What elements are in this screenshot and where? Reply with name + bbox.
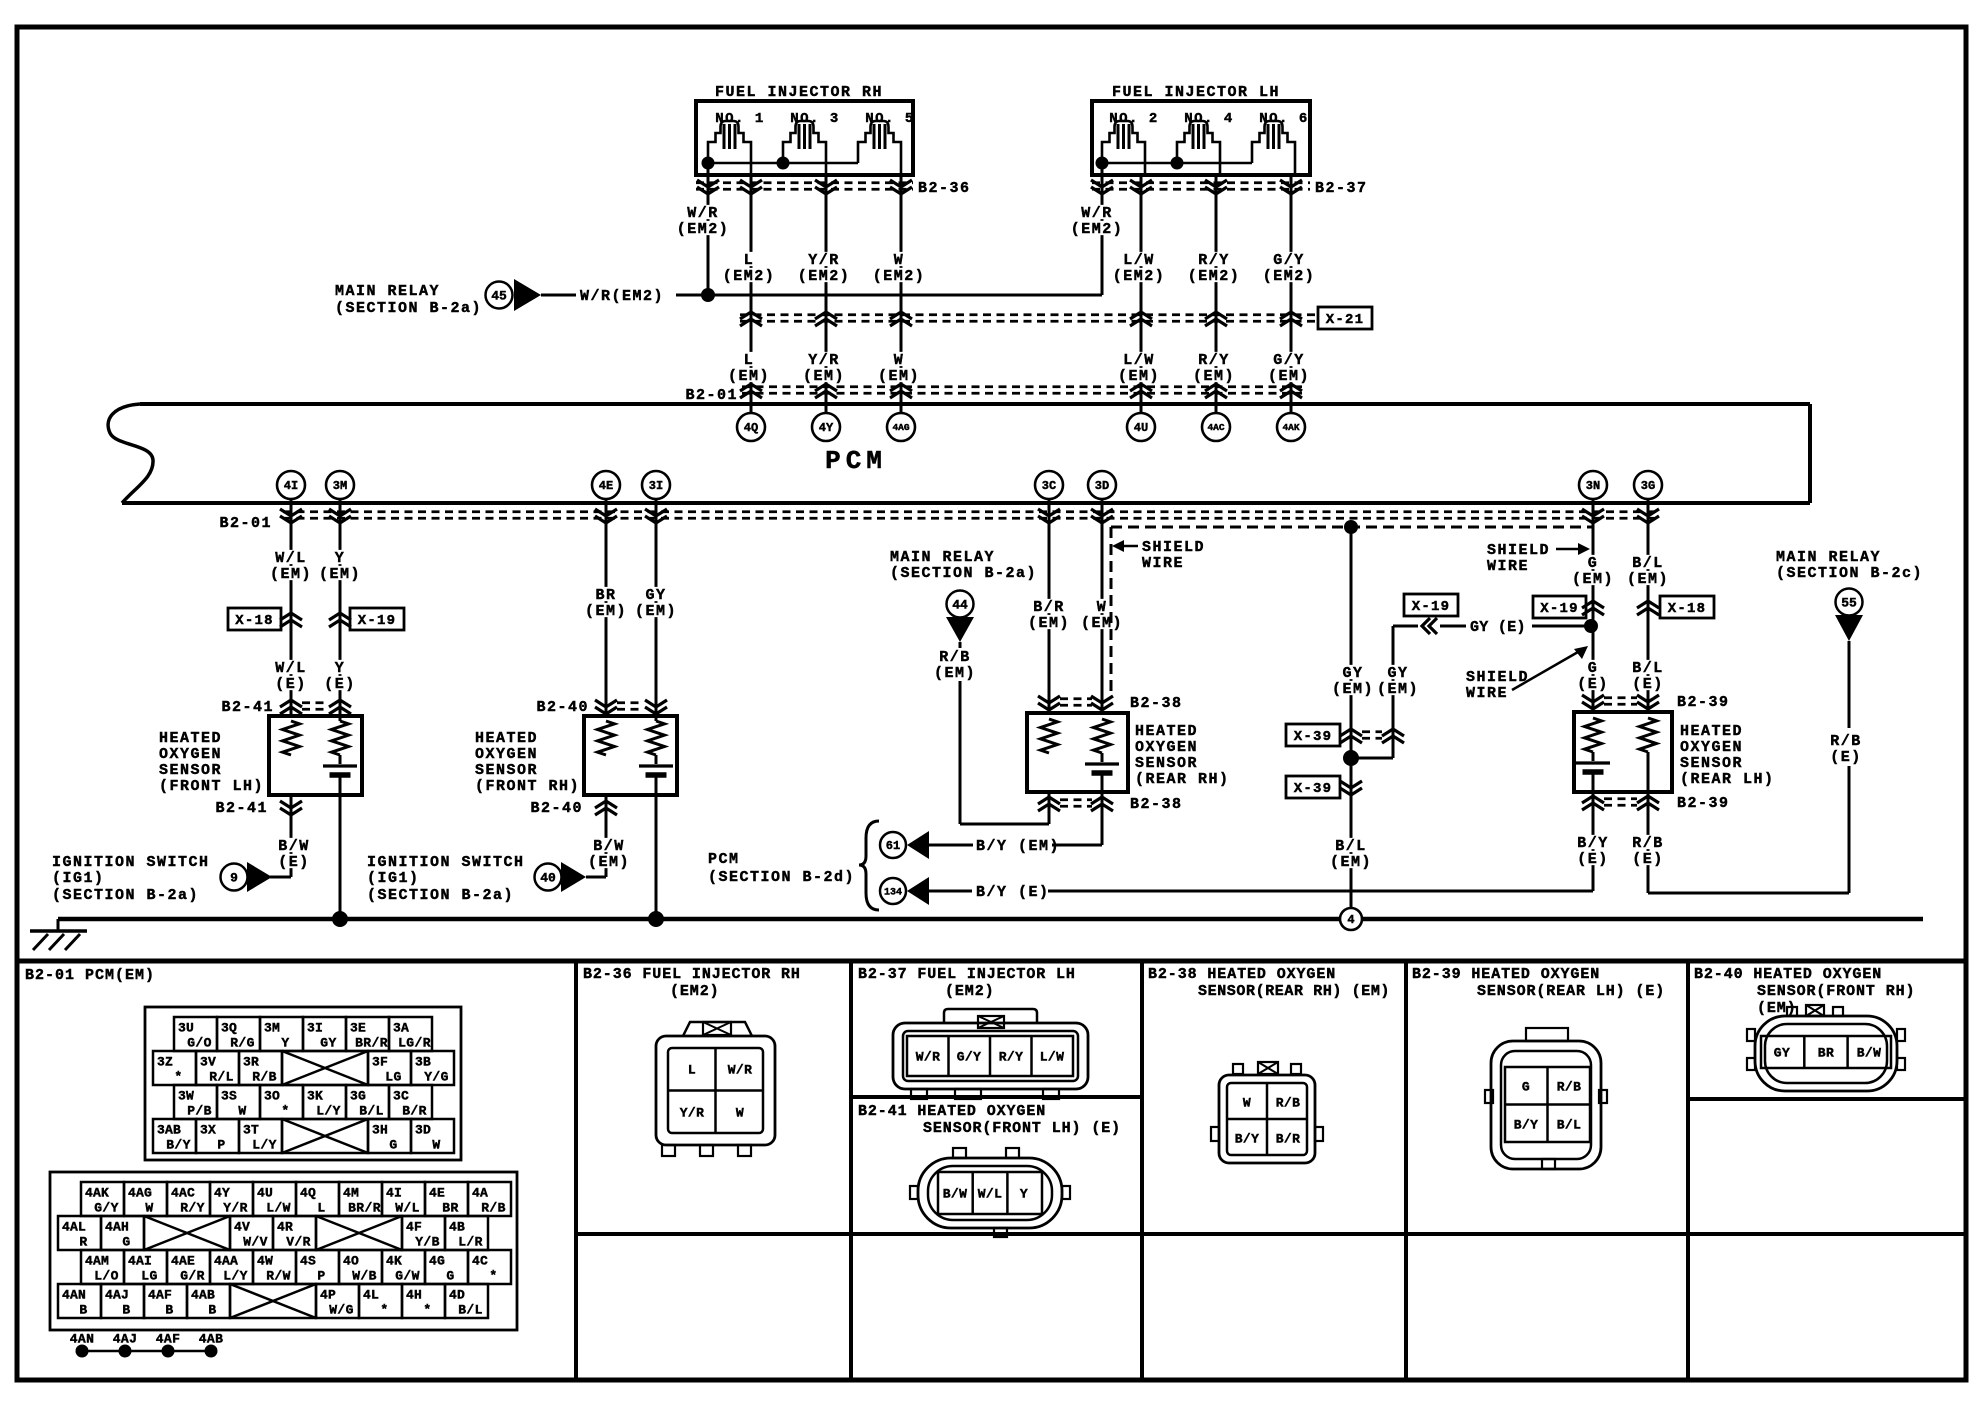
shield wire callout upper right — [1487, 542, 1590, 575]
cell header B2-01 PCM(EM) — [25, 967, 155, 984]
table top border — [17, 959, 1966, 964]
connector B2-01 bottom — [219, 509, 1659, 532]
svg-text:B2-37 FUEL INJECTOR LH: B2-37 FUEL INJECTOR LH — [858, 966, 1076, 983]
svg-text:WIRE: WIRE — [1142, 555, 1184, 572]
svg-text:B/Y (EM): B/Y (EM) — [976, 838, 1060, 855]
PCM pin 3G — [1634, 471, 1662, 499]
svg-text:L: L — [744, 352, 755, 369]
svg-text:3M: 3M — [264, 1020, 280, 1035]
svg-text:B/R: B/R — [402, 1103, 427, 1118]
wire Y (E) to ground — [332, 775, 348, 927]
svg-text:(EM): (EM) — [1193, 368, 1235, 385]
svg-text:B2-39: B2-39 — [1677, 795, 1730, 812]
svg-text:(EM2): (EM2) — [670, 983, 720, 1000]
svg-text:(EM): (EM) — [1330, 854, 1372, 871]
wire L (EM2) — [722, 175, 777, 413]
heater resistor front RH — [648, 721, 665, 755]
svg-text:L/W: L/W — [1123, 352, 1155, 369]
wire B/R below sensor — [1048, 792, 1051, 824]
svg-text:X-39: X-39 — [1294, 781, 1332, 797]
svg-text:4: 4 — [1347, 913, 1354, 927]
PCM pin 3C — [1035, 471, 1063, 499]
svg-text:PCM: PCM — [825, 446, 887, 476]
svg-text:R/W: R/W — [266, 1268, 291, 1283]
svg-text:4AK: 4AK — [85, 1185, 109, 1200]
connector B2-38 bottom — [1038, 796, 1183, 813]
svg-text:R/B: R/B — [939, 649, 971, 666]
svg-text:4D: 4D — [449, 1287, 465, 1302]
connector pin grid B2-01 4x block — [50, 1172, 517, 1330]
svg-text:X-39: X-39 — [1294, 729, 1332, 745]
wire W/R(EM2) main relay feed — [541, 288, 1102, 305]
RH injector internal supply bus wire — [702, 157, 859, 170]
wire BR (EM) from pin 4E — [584, 499, 628, 716]
svg-text:BR: BR — [1818, 1045, 1834, 1060]
svg-text:4AC: 4AC — [1207, 422, 1224, 433]
svg-text:B2-40: B2-40 — [530, 800, 583, 817]
svg-text:G: G — [122, 1234, 130, 1249]
connector B2-39 bottom — [1582, 795, 1730, 812]
svg-text:(EM): (EM) — [588, 854, 630, 871]
svg-text:3Q: 3Q — [221, 1020, 237, 1035]
svg-text:SENSOR(REAR RH) (EM): SENSOR(REAR RH) (EM) — [1198, 983, 1390, 1000]
svg-text:Y: Y — [335, 550, 346, 567]
wire B/Y (E) to PCM 134 — [929, 884, 1593, 901]
PCM pin 4AC — [1202, 413, 1230, 441]
svg-text:SHIELD: SHIELD — [1142, 539, 1205, 556]
heater battery symbol front LH — [323, 755, 357, 775]
svg-text:P: P — [317, 1268, 325, 1283]
svg-text:(EM): (EM) — [270, 566, 312, 583]
svg-text:4B: 4B — [449, 1219, 465, 1234]
svg-text:GY (E): GY (E) — [1470, 619, 1526, 636]
svg-text:4G: 4G — [429, 1253, 445, 1268]
svg-text:L/W: L/W — [266, 1200, 291, 1215]
svg-text:(SECTION B-2a): (SECTION B-2a) — [335, 300, 482, 317]
connector drawing B2-40 — [1747, 1005, 1905, 1091]
svg-text:G: G — [1588, 660, 1599, 677]
svg-text:BR: BR — [442, 1200, 458, 1215]
svg-text:(E): (E) — [1632, 851, 1664, 868]
PCM pin 4Q — [737, 413, 765, 441]
svg-text:4AJ: 4AJ — [113, 1331, 138, 1346]
connector X-19 right — [1533, 596, 1604, 618]
wire W (EM2) — [872, 175, 927, 413]
injector coil NO.1 — [708, 121, 751, 175]
svg-text:9: 9 — [230, 870, 238, 885]
wire L/W (EM2) — [1112, 175, 1167, 413]
svg-text:4AK: 4AK — [1282, 422, 1299, 433]
svg-text:4M: 4M — [343, 1185, 359, 1200]
heated oxygen sensor (front RH) box — [475, 716, 677, 795]
svg-text:W: W — [1097, 599, 1108, 616]
svg-text:R/B: R/B — [252, 1069, 277, 1084]
svg-text:MAIN RELAY: MAIN RELAY — [890, 549, 995, 566]
svg-text:Y/R: Y/R — [680, 1105, 705, 1120]
svg-text:3M: 3M — [333, 479, 347, 493]
svg-text:X-19: X-19 — [1412, 599, 1450, 615]
svg-text:(EM): (EM) — [1572, 571, 1614, 588]
sensor element resistor rear RH — [1041, 719, 1058, 753]
svg-text:(EM): (EM) — [1028, 615, 1070, 632]
heater resistor front LH — [332, 721, 349, 755]
svg-text:(EM): (EM) — [1627, 571, 1669, 588]
svg-text:(E): (E) — [278, 854, 310, 871]
svg-text:(E): (E) — [1577, 676, 1609, 693]
svg-text:4Y: 4Y — [214, 1185, 230, 1200]
svg-text:SHIELD: SHIELD — [1487, 542, 1550, 559]
svg-text:B2-41: B2-41 — [215, 800, 268, 817]
heater battery symbol front RH — [639, 755, 673, 775]
svg-text:3V: 3V — [200, 1054, 216, 1069]
wire R/Y (EM2) — [1187, 175, 1242, 413]
svg-text:B: B — [208, 1302, 216, 1317]
svg-text:(EM2): (EM2) — [798, 268, 851, 285]
svg-text:W/R: W/R — [1081, 205, 1113, 222]
ground pins 4AN 4AJ 4AF 4AB tie — [70, 1331, 224, 1357]
svg-text:B/L: B/L — [1335, 838, 1367, 855]
svg-text:3Z: 3Z — [157, 1054, 173, 1069]
svg-text:L: L — [317, 1200, 325, 1215]
svg-text:4AA: 4AA — [214, 1253, 238, 1268]
svg-text:R/L: R/L — [209, 1069, 234, 1084]
wire R/B (E) below sensor — [1631, 752, 1849, 893]
svg-text:BR/R: BR/R — [348, 1200, 381, 1215]
svg-text:(EM): (EM) — [1757, 1000, 1797, 1017]
svg-text:(SECTION B-2a): (SECTION B-2a) — [890, 565, 1037, 582]
wire B/R (EM) from pin 3C — [1027, 499, 1071, 713]
svg-text:(EM2): (EM2) — [723, 268, 776, 285]
svg-text:4Q: 4Q — [300, 1185, 316, 1200]
svg-text:3S: 3S — [221, 1088, 237, 1103]
svg-text:3W: 3W — [178, 1088, 194, 1103]
svg-text:HEATED: HEATED — [1135, 723, 1198, 740]
PCM pin 4U — [1127, 413, 1155, 441]
svg-text:SENSOR: SENSOR — [1135, 755, 1198, 772]
svg-text:4AM: 4AM — [85, 1253, 109, 1268]
svg-text:(EM): (EM) — [728, 368, 770, 385]
svg-text:4AF: 4AF — [156, 1331, 181, 1346]
svg-text:(EM): (EM) — [1081, 615, 1123, 632]
svg-text:(FRONT LH): (FRONT LH) — [159, 778, 264, 795]
svg-text:B/L: B/L — [1632, 660, 1664, 677]
svg-text:B2-41 HEATED OXYGEN: B2-41 HEATED OXYGEN — [858, 1103, 1046, 1120]
svg-text:W/L: W/L — [275, 660, 307, 677]
svg-text:B/L: B/L — [1557, 1117, 1582, 1132]
wire R/B (E) from main relay 55 — [1829, 641, 1863, 893]
svg-text:B/R: B/R — [1276, 1131, 1301, 1146]
svg-text:(SECTION B-2c): (SECTION B-2c) — [1776, 565, 1923, 582]
svg-text:(IG1): (IG1) — [367, 870, 420, 887]
svg-text:4AB: 4AB — [199, 1331, 224, 1346]
svg-text:HEATED: HEATED — [159, 730, 222, 747]
ground junction 4 — [1340, 908, 1362, 930]
svg-text:3F: 3F — [372, 1054, 388, 1069]
shield wire tie on G wire — [1592, 630, 1595, 654]
svg-text:4F: 4F — [406, 1219, 422, 1234]
heater resistor rear LH — [1640, 718, 1657, 752]
wire W (EM) label — [877, 352, 921, 385]
svg-text:WIRE: WIRE — [1487, 558, 1529, 575]
wire W/L (EM) from pin 4I — [269, 499, 313, 716]
svg-text:(EM2): (EM2) — [945, 983, 995, 1000]
svg-text:L/Y: L/Y — [223, 1268, 248, 1283]
connector B2-41 bottom — [215, 800, 302, 817]
connector pin grid B2-01 3x block — [145, 1007, 461, 1160]
svg-text:(EM2): (EM2) — [1263, 268, 1316, 285]
svg-text:R/B: R/B — [481, 1200, 506, 1215]
svg-text:B/Y: B/Y — [1235, 1131, 1260, 1146]
wire R/B (EM) from main relay 44 — [933, 642, 1049, 824]
connector B2-38 top — [1038, 695, 1183, 712]
wire Y (E) label — [323, 660, 357, 693]
ignition switch 40 arrow — [367, 854, 586, 904]
svg-text:W/R: W/R — [916, 1049, 941, 1064]
svg-text:*: * — [281, 1103, 289, 1118]
svg-text:45: 45 — [491, 288, 507, 303]
wire Y (EM) from pin 3M — [318, 499, 362, 721]
PCM section B-2d brace — [708, 821, 879, 910]
svg-text:B/W: B/W — [943, 1186, 968, 1201]
svg-text:B2-38 HEATED OXYGEN: B2-38 HEATED OXYGEN — [1148, 966, 1336, 983]
svg-text:L/Y: L/Y — [316, 1103, 341, 1118]
svg-text:B2-01 PCM(EM): B2-01 PCM(EM) — [25, 967, 155, 984]
svg-text:*: * — [423, 1302, 431, 1317]
svg-text:SHIELD: SHIELD — [1466, 669, 1529, 686]
svg-text:4AI: 4AI — [128, 1253, 152, 1268]
connector B2-37 — [1091, 180, 1368, 197]
svg-text:(EM): (EM) — [934, 665, 976, 682]
svg-text:L: L — [688, 1062, 696, 1077]
main relay 55 arrow — [1776, 549, 1923, 641]
svg-text:(EM): (EM) — [585, 603, 627, 620]
svg-text:3E: 3E — [350, 1020, 366, 1035]
svg-text:W/R: W/R — [728, 1062, 753, 1077]
svg-text:4AN: 4AN — [70, 1331, 95, 1346]
svg-text:L/Y: L/Y — [252, 1137, 277, 1152]
svg-text:(EM): (EM) — [1332, 681, 1374, 698]
svg-text:B2-40 HEATED OXYGEN: B2-40 HEATED OXYGEN — [1694, 966, 1882, 983]
svg-text:B2-01: B2-01 — [685, 387, 738, 404]
svg-text:GY: GY — [1342, 665, 1363, 682]
svg-text:(EM2): (EM2) — [677, 221, 730, 238]
svg-text:B2-37: B2-37 — [1315, 180, 1368, 197]
svg-text:4AJ: 4AJ — [105, 1287, 129, 1302]
svg-text:Y: Y — [1020, 1186, 1028, 1201]
svg-text:MAIN RELAY: MAIN RELAY — [1776, 549, 1881, 566]
PCM pin 3M — [326, 471, 354, 499]
svg-text:4AC: 4AC — [171, 1185, 195, 1200]
connector X-18 left — [228, 608, 302, 630]
connector X-18 right — [1637, 596, 1714, 618]
svg-text:Y: Y — [281, 1035, 289, 1050]
wire B/Y (E) below sensor — [1576, 772, 1610, 891]
svg-text:3O: 3O — [264, 1088, 280, 1103]
svg-text:4AE: 4AE — [171, 1253, 195, 1268]
table horizontal dividers — [576, 1097, 1966, 1234]
wire B/W (E) to ignition switch 9 — [270, 795, 311, 877]
connector X-39 lower — [1286, 776, 1362, 798]
svg-text:3D: 3D — [415, 1122, 431, 1137]
svg-text:W/L: W/L — [395, 1200, 420, 1215]
injector coil NO.3 — [783, 121, 826, 175]
svg-text:(EM): (EM) — [319, 566, 361, 583]
svg-text:4E: 4E — [429, 1185, 445, 1200]
PCM pin 4AK — [1277, 413, 1305, 441]
svg-text:61: 61 — [886, 839, 900, 853]
svg-text:(EM2): (EM2) — [1113, 268, 1166, 285]
wire G/Y (EM) label — [1267, 352, 1311, 385]
svg-text:G/Y: G/Y — [1273, 352, 1305, 369]
svg-text:WIRE: WIRE — [1466, 685, 1508, 702]
wire R/Y (EM) label — [1192, 352, 1236, 385]
svg-text:4A: 4A — [472, 1185, 488, 1200]
connector B2-39 top — [1582, 694, 1730, 711]
svg-text:(E): (E) — [1632, 676, 1664, 693]
svg-text:B2-39 HEATED OXYGEN: B2-39 HEATED OXYGEN — [1412, 966, 1600, 983]
svg-text:4I: 4I — [284, 479, 298, 493]
svg-text:G/R: G/R — [180, 1268, 205, 1283]
svg-text:44: 44 — [952, 597, 968, 612]
svg-text:B: B — [122, 1302, 130, 1317]
svg-text:R: R — [79, 1234, 87, 1249]
svg-text:B: B — [165, 1302, 173, 1317]
svg-text:3I: 3I — [307, 1020, 323, 1035]
svg-text:*: * — [174, 1069, 182, 1084]
wire B/Y (EM) to PCM 61 — [929, 773, 1102, 855]
connector B2-36 — [696, 180, 971, 197]
heated oxygen sensor (rear LH) box — [1574, 712, 1775, 792]
svg-text:B2-38: B2-38 — [1130, 796, 1183, 813]
svg-text:(SECTION B-2a): (SECTION B-2a) — [367, 887, 514, 904]
svg-text:B/Y: B/Y — [166, 1137, 191, 1152]
svg-text:W/G: W/G — [329, 1302, 354, 1317]
svg-text:4O: 4O — [343, 1253, 359, 1268]
svg-text:IGNITION SWITCH: IGNITION SWITCH — [367, 854, 525, 871]
wire Y/R (EM) label — [802, 352, 846, 385]
svg-text:W: W — [238, 1103, 246, 1118]
svg-text:LG: LG — [141, 1268, 157, 1283]
svg-text:(EM): (EM) — [803, 368, 845, 385]
svg-text:B2-36: B2-36 — [918, 180, 971, 197]
svg-text:4AB: 4AB — [191, 1287, 215, 1302]
table vertical dividers — [576, 961, 1688, 1380]
svg-text:X-18: X-18 — [1668, 601, 1706, 617]
wire GY (E) jumper to X-19 — [1393, 618, 1598, 636]
svg-text:W/V: W/V — [243, 1234, 268, 1249]
svg-text:R/B: R/B — [1830, 733, 1862, 750]
svg-text:R/B: R/B — [1632, 835, 1664, 852]
svg-text:3A: 3A — [393, 1020, 409, 1035]
svg-text:4AG: 4AG — [892, 422, 909, 433]
svg-text:SENSOR: SENSOR — [159, 762, 222, 779]
svg-text:B2-01: B2-01 — [219, 515, 272, 532]
svg-text:G: G — [1522, 1079, 1530, 1094]
svg-text:R/B: R/B — [1276, 1095, 1301, 1110]
svg-text:SENSOR(REAR LH) (E): SENSOR(REAR LH) (E) — [1477, 983, 1665, 1000]
wire W/R (EM2) from injector RH — [676, 163, 731, 295]
shield wire callout lower right — [1466, 646, 1588, 702]
PCM terminal 134 arrow — [880, 877, 929, 905]
svg-text:(EM): (EM) — [635, 603, 677, 620]
svg-text:*: * — [489, 1268, 497, 1283]
svg-text:GY: GY — [1387, 665, 1408, 682]
svg-text:X-21: X-21 — [1326, 312, 1364, 328]
connector drawing B2-39 — [1485, 1028, 1607, 1169]
svg-text:4AL: 4AL — [62, 1219, 86, 1234]
svg-text:B/L: B/L — [1632, 555, 1664, 572]
svg-text:4W: 4W — [257, 1253, 273, 1268]
svg-text:(E): (E) — [1577, 851, 1609, 868]
svg-text:(E): (E) — [1830, 749, 1862, 766]
svg-text:4AG: 4AG — [128, 1185, 152, 1200]
svg-text:G/Y: G/Y — [957, 1049, 982, 1064]
svg-text:Y/R: Y/R — [808, 252, 840, 269]
svg-text:W/L: W/L — [978, 1186, 1003, 1201]
svg-text:3D: 3D — [1095, 479, 1109, 493]
svg-text:B2-36 FUEL INJECTOR RH: B2-36 FUEL INJECTOR RH — [583, 966, 801, 983]
cell header B2-36 fuel injector RH — [583, 966, 801, 1000]
svg-text:R/B: R/B — [1557, 1079, 1582, 1094]
svg-text:Y: Y — [335, 660, 346, 677]
ground symbol — [30, 919, 87, 950]
svg-text:4Q: 4Q — [744, 421, 758, 435]
wire L/W (EM) label — [1117, 352, 1161, 385]
cell header B2-37 fuel injector LH — [858, 966, 1076, 1000]
svg-text:GY: GY — [645, 587, 666, 604]
heated oxygen sensor (rear RH) box — [1027, 713, 1230, 792]
svg-text:GY: GY — [320, 1035, 336, 1050]
wire G/Y (EM2) — [1262, 175, 1317, 413]
svg-text:PCM: PCM — [708, 851, 740, 868]
svg-text:B/Y (E): B/Y (E) — [976, 884, 1050, 901]
svg-text:B/Y: B/Y — [1514, 1117, 1539, 1132]
PCM pin 4I — [277, 471, 305, 499]
svg-text:4I: 4I — [386, 1185, 402, 1200]
svg-text:BR: BR — [595, 587, 616, 604]
PCM pin 4AG — [887, 413, 915, 441]
wire G (EM) from pin 3N — [1571, 499, 1615, 712]
svg-text:Y/R: Y/R — [808, 352, 840, 369]
ground bus wire — [58, 917, 1923, 922]
svg-text:4E: 4E — [599, 479, 613, 493]
svg-text:LG/R: LG/R — [398, 1035, 431, 1050]
wire GY (EM) shield drain — [1331, 527, 1375, 908]
PCM pin 4Y — [812, 413, 840, 441]
PCM pin 3D — [1088, 471, 1116, 499]
PCM pin 3N — [1579, 471, 1607, 499]
svg-text:B/L: B/L — [359, 1103, 384, 1118]
PCM pin 4E — [592, 471, 620, 499]
heater battery symbol rear LH — [1576, 752, 1610, 772]
wire B/L (EM) to ground 4 — [1329, 838, 1373, 871]
wire GY (E) to ground — [648, 775, 664, 927]
svg-text:V/R: V/R — [286, 1234, 311, 1249]
svg-text:LG: LG — [385, 1069, 401, 1084]
svg-text:(FRONT RH): (FRONT RH) — [475, 778, 580, 795]
svg-text:L/W: L/W — [1123, 252, 1155, 269]
svg-text:SENSOR(FRONT RH): SENSOR(FRONT RH) — [1757, 983, 1915, 1000]
svg-text:(EM2): (EM2) — [1188, 268, 1241, 285]
svg-text:*: * — [380, 1302, 388, 1317]
svg-text:R/Y: R/Y — [1198, 352, 1230, 369]
svg-text:3G: 3G — [350, 1088, 366, 1103]
svg-text:40: 40 — [540, 870, 556, 885]
svg-text:4P: 4P — [320, 1287, 336, 1302]
svg-text:G/Y: G/Y — [94, 1200, 119, 1215]
wire B/L (EM) from pin 3G — [1626, 499, 1670, 712]
svg-text:3C: 3C — [1042, 479, 1056, 493]
